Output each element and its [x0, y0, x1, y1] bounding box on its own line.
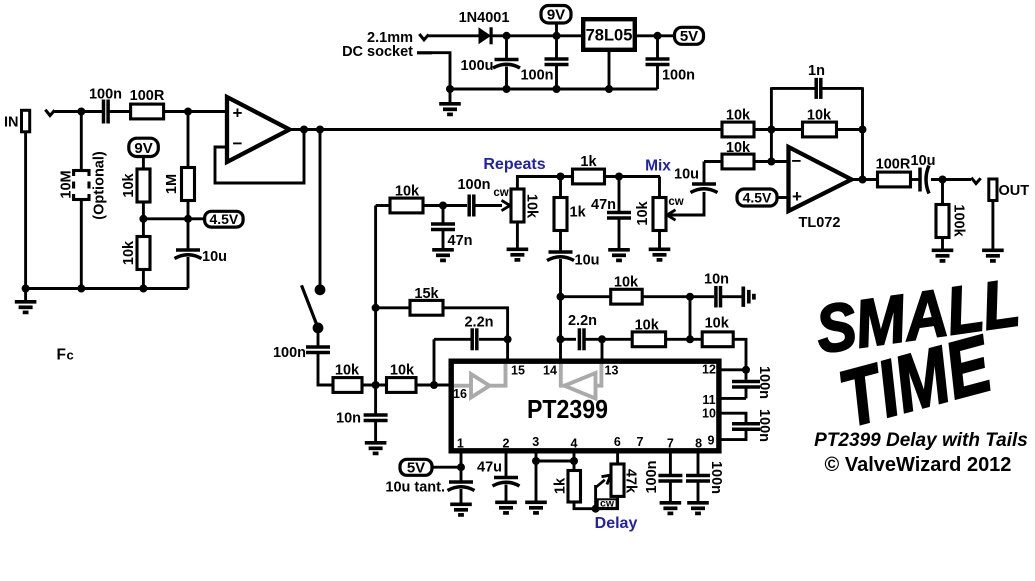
resistor 10k signal to TL072 node	[722, 122, 754, 137]
resistor 10k row A	[611, 289, 643, 304]
wire - 2.2n second to pin13	[585, 338, 602, 341]
capacitor 100n pin7	[658, 475, 682, 481]
wire - pin9 stub	[719, 429, 746, 440]
svg-text:14: 14	[543, 364, 557, 378]
junction dot TL072 output feedback	[859, 176, 867, 184]
svg-text:10M: 10M	[59, 170, 75, 198]
wire - 5V oval to pin1	[432, 466, 461, 469]
wire - 10u down to pin 14 trunk	[559, 259, 562, 359]
svg-text:−: −	[792, 152, 802, 171]
9V supply oval bias	[129, 138, 159, 156]
resistor 15k	[410, 300, 443, 315]
svg-text:15k: 15k	[414, 286, 439, 302]
wire - 15k row left	[376, 306, 411, 309]
wire - row C pin13 to 10k	[602, 338, 633, 341]
ground symbol pin2	[495, 502, 517, 513]
wire - pin11 stub	[719, 397, 746, 400]
wire - row A node down to row C	[689, 297, 692, 340]
wire - 10k feedback to right vertical	[835, 128, 863, 131]
wire - pin 13 vertical	[601, 339, 604, 358]
wire - 4.5V to + input	[777, 196, 789, 199]
wire - 10k to feedback node	[754, 128, 771, 131]
input tick mark	[45, 110, 54, 116]
junction dot bus at 100n 1	[553, 85, 561, 93]
wire - down to 100u cap	[505, 36, 508, 60]
wire - repeats pot bottom to ground	[516, 222, 519, 248]
wire - diode to 78L05 input	[492, 34, 582, 37]
resistor 1k vertical	[554, 198, 567, 231]
capacitor 10u repeats electrolytic	[547, 252, 574, 261]
wire - 1n row right	[822, 87, 863, 90]
wire - U1a feedback from - input	[215, 130, 304, 184]
junction dot U1a output feedback	[300, 126, 308, 134]
wire - OUT jack sleeve down	[991, 201, 994, 249]
svg-text:IN: IN	[4, 115, 19, 131]
wire - pin7 down	[669, 451, 672, 475]
potentiometer Delay 47k box	[611, 464, 624, 496]
capacitor 2.2n second	[579, 328, 584, 350]
node B junction dot at 1M column	[184, 108, 192, 116]
junction dot bus at IN jack	[22, 285, 30, 293]
wire - 47n drop	[442, 206, 445, 223]
svg-text:10k: 10k	[121, 240, 137, 265]
wire - 100n to ground bus	[555, 65, 558, 90]
switch contact dot bottom	[313, 323, 324, 334]
junction dot bus at divider	[139, 285, 147, 293]
svg-text:100n: 100n	[273, 345, 306, 361]
svg-text:100n: 100n	[520, 68, 553, 84]
svg-text:4: 4	[571, 437, 578, 451]
svg-text:10k: 10k	[395, 184, 420, 200]
junction dot pin3	[532, 457, 540, 465]
svg-text:10u: 10u	[575, 253, 600, 269]
9V supply oval power	[541, 6, 571, 24]
wire - IN jack sleeve down to ground bus	[24, 132, 27, 289]
svg-text:−: −	[233, 134, 243, 153]
junction dot pin12 node	[742, 366, 750, 374]
svg-text:100n: 100n	[756, 366, 772, 399]
svg-text:100n: 100n	[756, 409, 772, 442]
svg-text:100n: 100n	[644, 460, 660, 493]
wire - 100n 2 to ground bus	[656, 65, 659, 90]
svg-text:cw: cw	[600, 498, 615, 510]
ground symbol pin8	[687, 503, 709, 514]
ground symbol repeats pot	[507, 249, 529, 260]
junction dot mix node	[615, 173, 623, 181]
svg-text:F: F	[57, 347, 66, 364]
5V supply oval power	[675, 27, 704, 44]
svg-text:15: 15	[511, 364, 525, 378]
resistor 100R output	[878, 172, 911, 187]
svg-text:11: 11	[702, 393, 715, 407]
wire - row A from trunk to 10k	[561, 295, 612, 298]
capacitor 100n input	[104, 100, 109, 124]
wire - input to node A	[55, 110, 104, 113]
junction dot 10n node	[372, 381, 380, 389]
ground symbol 47n repeats	[432, 250, 454, 261]
wire - pin3 down to ground	[535, 451, 538, 501]
tick mark DC input	[419, 34, 428, 40]
junction dot pin13 node	[598, 335, 606, 343]
resistor 10k repeats feed	[390, 198, 423, 213]
wire - 47n mix to ground	[618, 218, 621, 248]
junction dot pin15 node	[504, 335, 512, 343]
svg-text:100k: 100k	[950, 204, 966, 237]
svg-text:5V: 5V	[407, 460, 425, 477]
svg-text:100n: 100n	[708, 461, 724, 494]
wire - 10k to 47n node	[423, 204, 467, 207]
svg-text:12: 12	[702, 363, 716, 377]
wire - delay wiper diagonal arrow	[596, 480, 605, 488]
svg-text:1M: 1M	[164, 174, 180, 194]
wire - pin8 down	[697, 451, 700, 475]
wire - right feedback vertical	[861, 87, 864, 180]
ground symbol 10n	[365, 443, 387, 454]
wire - 10k row to pin16	[416, 384, 450, 387]
svg-text:10k: 10k	[705, 316, 730, 332]
svg-text:PT2399 Delay with Tails: PT2399 Delay with Tails	[814, 430, 1028, 451]
svg-text:78L05: 78L05	[586, 27, 633, 45]
node junction dot 1M column at 4.5V row	[184, 215, 192, 223]
svg-text:4.5V: 4.5V	[209, 211, 238, 227]
wire - pin4 down	[573, 451, 576, 472]
svg-text:13: 13	[605, 364, 619, 378]
wire - 10n to ground	[374, 421, 377, 442]
svg-text:10n: 10n	[704, 272, 729, 288]
wire - 1k vertical to 10u	[559, 231, 562, 253]
svg-text:9V: 9V	[547, 7, 565, 24]
capacitor 10u tant electrolytic	[448, 482, 475, 491]
wire - 100n to repeats wiper arrow	[475, 204, 502, 207]
svg-text:Repeats: Repeats	[483, 156, 545, 173]
wire - 4.5V node to oval	[143, 217, 205, 220]
wire - 1k to mix node	[605, 175, 661, 178]
ground symbol bottom left	[24, 289, 27, 301]
svg-text:Delay: Delay	[595, 515, 638, 532]
DC socket sleeve bar	[417, 51, 432, 54]
svg-text:10k: 10k	[807, 108, 832, 124]
IC internal buffer triangle 2 gray	[561, 364, 602, 399]
svg-text:1k: 1k	[553, 477, 569, 494]
svg-text:10: 10	[702, 407, 716, 421]
wire - feedback node vertical	[770, 87, 773, 161]
wire - pin6 to delay pot	[616, 451, 619, 466]
junction dot feedback node at - input	[767, 158, 775, 166]
svg-text:7: 7	[637, 435, 644, 449]
junction dot at 100u	[503, 32, 511, 40]
wire - pin10 stub	[719, 413, 746, 424]
svg-text:8: 8	[695, 437, 702, 451]
capacitor 100n repeats	[469, 195, 474, 217]
switch contact dot top	[315, 284, 326, 295]
wire - mix wiper from 10u cap	[668, 192, 704, 215]
svg-text:1N4001: 1N4001	[459, 10, 510, 26]
ground symbol OUT jack	[982, 250, 1004, 261]
junction dot right vertical at 10k	[859, 126, 867, 134]
arrowhead repeats wiper	[502, 200, 511, 210]
wire - mix 10u to 10k inverting	[704, 160, 723, 163]
svg-text:(Optional): (Optional)	[92, 151, 108, 220]
svg-text:5V: 5V	[680, 28, 698, 45]
resistor 100R	[131, 104, 164, 119]
wire - 100n tails down and row to 10k	[318, 353, 334, 386]
ground symbol power	[449, 89, 452, 102]
wire - row C to pin12 corner	[733, 339, 746, 370]
wire - 100R to op-amp + input	[164, 110, 227, 113]
capacitor 100u electrolytic	[493, 60, 520, 69]
ground symbol pin3	[525, 502, 547, 513]
wire - TL072 output	[850, 178, 878, 181]
svg-text:47u: 47u	[477, 460, 502, 476]
svg-text:47n: 47n	[591, 197, 616, 213]
svg-text:1k: 1k	[570, 205, 587, 221]
junction dot feedback node top	[767, 126, 775, 134]
junction dot at 9V node	[553, 32, 561, 40]
wire - 10M down to ground bus	[80, 199, 83, 289]
wire - 100k from output node	[941, 180, 944, 206]
svg-text:3: 3	[532, 435, 539, 449]
svg-text:1n: 1n	[808, 63, 825, 79]
output tick mark	[971, 178, 980, 184]
wire - 1k vertical top lead	[559, 177, 562, 199]
junction dot row node at pin16	[430, 381, 438, 389]
wire - 2.2n to pin15 node	[479, 338, 508, 341]
svg-text:100R: 100R	[130, 88, 165, 104]
potentiometer Repeats 10k box	[511, 189, 524, 222]
wire - DC + to diode	[429, 34, 480, 37]
svg-text:10k: 10k	[614, 275, 639, 291]
svg-text:10k: 10k	[335, 363, 360, 379]
resistor 1M	[182, 168, 195, 201]
svg-text:10k: 10k	[635, 318, 660, 334]
power ground bus wire	[450, 88, 658, 91]
svg-text:6: 6	[614, 435, 621, 449]
svg-text:47n: 47n	[448, 233, 473, 249]
wire - 10k to TL072 - input	[754, 160, 789, 163]
svg-text:10u: 10u	[674, 167, 699, 183]
capacitor 100n pin10-9	[732, 424, 760, 430]
capacitor 100n pin12-11	[745, 370, 748, 380]
junction dot 47n node	[439, 202, 447, 210]
junction dot bus at 78L05 gnd	[605, 85, 613, 93]
capacitor 2.2n first	[472, 328, 477, 350]
capacitor 47n mix shunt	[607, 213, 631, 219]
junction dot signal to switch drop	[316, 126, 324, 134]
wire - node B down to 1M	[187, 112, 190, 169]
svg-text:OUT: OUT	[999, 183, 1030, 199]
wire - switch to 100n tails	[317, 328, 320, 346]
wire - delay wiper vertical	[594, 485, 597, 509]
capacitor 100n pin8	[686, 475, 710, 481]
junction dot bus at 10M	[77, 285, 85, 293]
wire - 10n drop	[374, 385, 377, 415]
svg-text:c: c	[67, 348, 74, 363]
5V oval bottom	[400, 459, 432, 475]
junction dot trunk at 10k row A	[557, 293, 565, 301]
wire - mix node to mix pot top	[658, 177, 661, 199]
wire - node A down to 10M	[80, 112, 83, 170]
svg-text:Mix: Mix	[645, 158, 671, 175]
svg-text:10k: 10k	[635, 200, 651, 225]
svg-text:cw: cw	[493, 187, 508, 199]
wire - 10k lower to ground bus	[142, 270, 145, 289]
capacitor 10u output electrolytic	[920, 166, 929, 194]
wire - pin2 down	[505, 451, 508, 479]
op-amp U1a triangle	[227, 97, 290, 162]
ground symbol sideways	[743, 287, 754, 307]
svg-text:2.2n: 2.2n	[464, 315, 493, 331]
wire - 10k to 10n node	[362, 384, 388, 387]
resistor 10k upper divider	[137, 169, 150, 202]
wire - 100n pin8 to ground	[697, 481, 700, 501]
svg-text:10u: 10u	[911, 153, 936, 169]
wire - 2.2n row left lead	[434, 338, 471, 341]
resistor 10M dashed optional	[74, 169, 89, 201]
resistor 100k output load	[936, 205, 949, 238]
diode 1N4001	[479, 27, 492, 44]
svg-text:16: 16	[453, 387, 467, 401]
resistor 1k horizontal	[573, 169, 605, 184]
svg-text:10k: 10k	[121, 172, 137, 197]
wire - 2.2n row left vertical from row node	[433, 339, 436, 385]
svg-text:PT2399: PT2399	[527, 396, 608, 424]
wire - 9V to 10k upper	[142, 157, 145, 171]
wire - 47n mix drop	[618, 177, 621, 212]
cw box delay	[598, 499, 617, 508]
svg-text:1: 1	[457, 437, 464, 451]
wire - 10u mix top to 10k row	[703, 162, 706, 186]
wire - 47u to ground	[505, 485, 508, 501]
wire - 10n to sideways ground	[722, 295, 742, 298]
resistor 10k row C second	[702, 332, 733, 347]
svg-text:100n: 100n	[457, 177, 490, 193]
svg-text:4.5V: 4.5V	[743, 190, 772, 206]
svg-text:100R: 100R	[876, 157, 911, 173]
svg-text:47k: 47k	[622, 469, 638, 494]
wire - mix pot bottom to ground	[658, 230, 661, 248]
wire - 2.2n second row left	[561, 338, 577, 341]
junction dot trunk at 2.2n row	[557, 335, 565, 343]
resistor 10k row first	[333, 378, 362, 393]
wire - 78L05 ground pin	[608, 49, 611, 89]
capacitor 10n feedback	[716, 286, 721, 308]
svg-text:10n: 10n	[336, 411, 361, 427]
wire - 47n to ground	[442, 230, 445, 249]
resistor 10k feedback	[803, 122, 837, 137]
wire - pin12 stub	[719, 368, 746, 371]
capacitor 47u electrolytic	[493, 478, 520, 487]
node 4.5V junction dot	[139, 215, 147, 223]
svg-text:+: +	[233, 104, 243, 123]
svg-text:2.2n: 2.2n	[568, 313, 597, 329]
wire - 100R to 10u out	[911, 178, 922, 181]
switch lever	[302, 285, 319, 328]
wire - row C between resistors	[666, 338, 703, 341]
wire - U1a output long signal line to TL072 network	[288, 128, 723, 131]
capacitor 10n shunt	[364, 415, 388, 421]
junction dot row A node	[686, 293, 694, 301]
junction dot row C node	[686, 335, 694, 343]
wire - pin15 node down to IC	[506, 339, 509, 358]
ground symbol 100k	[932, 250, 954, 261]
4.5V oval TL072	[737, 189, 777, 206]
svg-text:10u tant.: 10u tant.	[385, 480, 445, 496]
wire - pin3 to pin4 link	[536, 460, 574, 463]
wire - 100n pin7 to ground	[669, 481, 672, 501]
junction dot at 100k	[939, 176, 947, 184]
svg-text:+: +	[792, 187, 802, 206]
capacitor 100n power 1	[545, 59, 569, 65]
wire - 100u to ground bus	[505, 67, 508, 90]
junction dot at 5V node	[654, 32, 662, 40]
junction dot 1k node	[557, 173, 565, 181]
capacitor 1n feedback	[816, 78, 821, 99]
svg-text:10k: 10k	[726, 140, 751, 156]
ground symbol pin7	[660, 503, 682, 514]
ground bus wire bottom left	[24, 287, 188, 290]
jack J2 OUT	[989, 179, 997, 201]
resistor 10k lower divider	[137, 237, 150, 270]
svg-text:100u: 100u	[460, 58, 493, 74]
svg-text:10k: 10k	[523, 194, 539, 219]
4.5V oval	[205, 211, 244, 227]
arrowhead mix wiper	[667, 210, 676, 220]
ground symbol mix pot	[649, 249, 671, 260]
svg-text:7: 7	[667, 437, 674, 451]
wire - cap to 100R	[109, 110, 131, 113]
wire - 1M to 10u	[187, 201, 190, 251]
svg-text:1k: 1k	[580, 154, 597, 170]
wire - 1k row left lead	[561, 175, 574, 178]
capacitor 100n tails	[306, 347, 330, 353]
svg-text:2: 2	[503, 437, 510, 451]
junction dot pin4	[570, 457, 578, 465]
junction dot pin1 5V	[457, 463, 465, 471]
svg-text:10k: 10k	[390, 363, 415, 379]
svg-text:9V: 9V	[134, 140, 152, 157]
wire - 5V node down to 100n	[656, 36, 659, 60]
IC internal buffer triangle 1 gray	[454, 364, 506, 398]
wire - 15k row right and down to pin15 node	[443, 308, 508, 340]
svg-text:cw: cw	[668, 196, 683, 208]
resistor 10k row second	[387, 378, 417, 393]
capacitor 47n repeats shunt	[431, 224, 455, 230]
ground symbol 47n mix	[608, 250, 630, 261]
svg-text:© ValveWizard 2012: © ValveWizard 2012	[825, 454, 1012, 476]
wire - 10u to ground bus	[187, 257, 190, 289]
capacitor 10u mix electrolytic	[691, 184, 718, 193]
wire - pin1 down	[460, 451, 463, 483]
wire - 100k to ground	[941, 238, 944, 249]
junction dot trunk at 15k row	[372, 304, 380, 312]
wire - vertical trunk x375	[374, 206, 377, 386]
svg-text:DC socket: DC socket	[342, 44, 413, 60]
junction dot bus at 100u	[503, 85, 511, 93]
svg-text:TL072: TL072	[799, 215, 841, 231]
wire - 9V oval down through node to 100n	[555, 23, 558, 60]
wire - 10k to node 4.5V	[142, 202, 145, 237]
op-amp U2 TL072 triangle	[789, 147, 852, 211]
jack J1 IN	[22, 110, 30, 132]
IC U3 PT2399 body	[451, 361, 719, 451]
wire - 1n row left	[771, 87, 815, 90]
wire - 10u out to OUT tick	[931, 178, 971, 181]
wire - trunk top to 10k repeats	[376, 204, 391, 207]
wire - 10u tant to ground	[460, 489, 463, 503]
svg-text:100n: 100n	[662, 68, 695, 84]
node A junction dot	[77, 108, 85, 116]
resistor 10k inverting input	[722, 154, 754, 169]
